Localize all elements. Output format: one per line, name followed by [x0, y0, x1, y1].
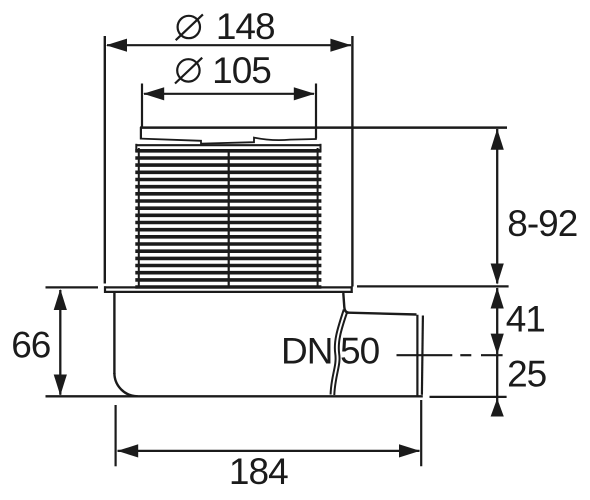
svg-text:105: 105 — [212, 50, 271, 91]
svg-text:41: 41 — [506, 299, 545, 340]
svg-text:DN: DN — [281, 330, 332, 371]
svg-text:50: 50 — [340, 330, 380, 371]
svg-text:8-92: 8-92 — [507, 203, 577, 244]
svg-text:148: 148 — [216, 6, 275, 47]
svg-text:25: 25 — [507, 354, 547, 395]
svg-text:184: 184 — [229, 451, 288, 492]
svg-text:66: 66 — [11, 325, 50, 366]
